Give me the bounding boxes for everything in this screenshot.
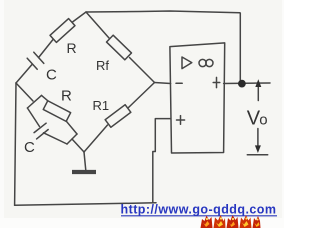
svg-text:R: R (67, 40, 77, 56)
svg-text:o: o (259, 112, 267, 129)
svg-text:C: C (46, 67, 57, 84)
svg-text:C: C (24, 139, 35, 156)
svg-text:Rf: Rf (96, 58, 109, 73)
svg-text:R: R (61, 88, 72, 105)
svg-text:http://www.go-qddq.com: http://www.go-qddq.com (121, 203, 277, 217)
svg-text:R1: R1 (93, 98, 110, 113)
